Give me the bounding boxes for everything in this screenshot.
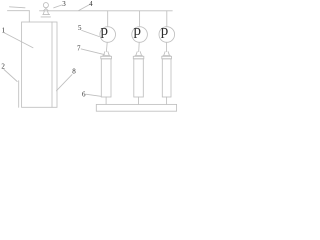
pump P2 outlet pipe [138,42,141,51]
tank T1 outline [22,22,57,107]
tank outlet side wall line [18,81,20,108]
drop pipe to pump P2 [139,11,141,27]
column C2 cap [133,56,144,59]
column C2 body [134,59,144,97]
riser pipe from tank top [28,11,30,22]
svg-text:3: 3 [62,0,66,8]
svg-text:p: p [134,23,142,39]
main header pipe [40,10,173,12]
metering pump M1 base line 2 [41,16,51,18]
svg-text:p: p [101,23,109,39]
svg-text:5: 5 [78,24,82,32]
column C3 cap [162,56,172,59]
svg-text:4: 4 [89,0,93,8]
svg-text:p: p [161,23,169,39]
pump P1 stand base [103,55,110,57]
base platform [96,104,176,111]
tank inner right wall [51,22,53,107]
column C1 cap [101,56,112,59]
pump P3 circle [159,27,175,43]
pump P2 stand base [135,55,142,57]
column C3 neck [166,97,168,104]
leader for label 8 [56,75,72,91]
pump P1 stand [104,52,110,56]
drop pipe to pump P3 [166,11,168,27]
pump P3 stand base [163,55,170,57]
svg-text:1: 1 [2,27,6,35]
column C1 body [101,59,111,97]
pump P2 stand [136,52,142,56]
leader for label 1 [4,33,33,48]
leader for label 4 [79,5,90,11]
leader for label 5 [82,30,100,36]
metering pump M1 crossed legs [44,7,49,10]
leader for label 6 [86,94,101,96]
metering pump M1 base line 1 [43,14,50,16]
leader for label 2 [4,70,17,82]
inlet pipe upper line [10,7,26,8]
metering pump M1 stand [43,11,48,15]
pump P2 circle [132,27,148,43]
pump P3 outlet pipe [166,42,168,51]
pump P3 stand [164,52,170,56]
metering pump M1 circle [43,3,48,8]
column C2 neck [138,97,140,104]
pump P1 circle [100,27,116,43]
leader for label 3 [54,5,62,8]
drop pipe to pump P1 [107,11,109,27]
inlet pipe lower line [8,10,30,12]
column C1 neck [105,97,107,104]
leader for label 7 [81,49,104,55]
svg-text:6: 6 [82,90,86,98]
pump P1 outlet pipe [105,42,108,51]
svg-text:7: 7 [77,44,81,52]
svg-text:2: 2 [1,63,5,71]
column C3 body [162,59,171,97]
svg-text:8: 8 [72,68,76,76]
